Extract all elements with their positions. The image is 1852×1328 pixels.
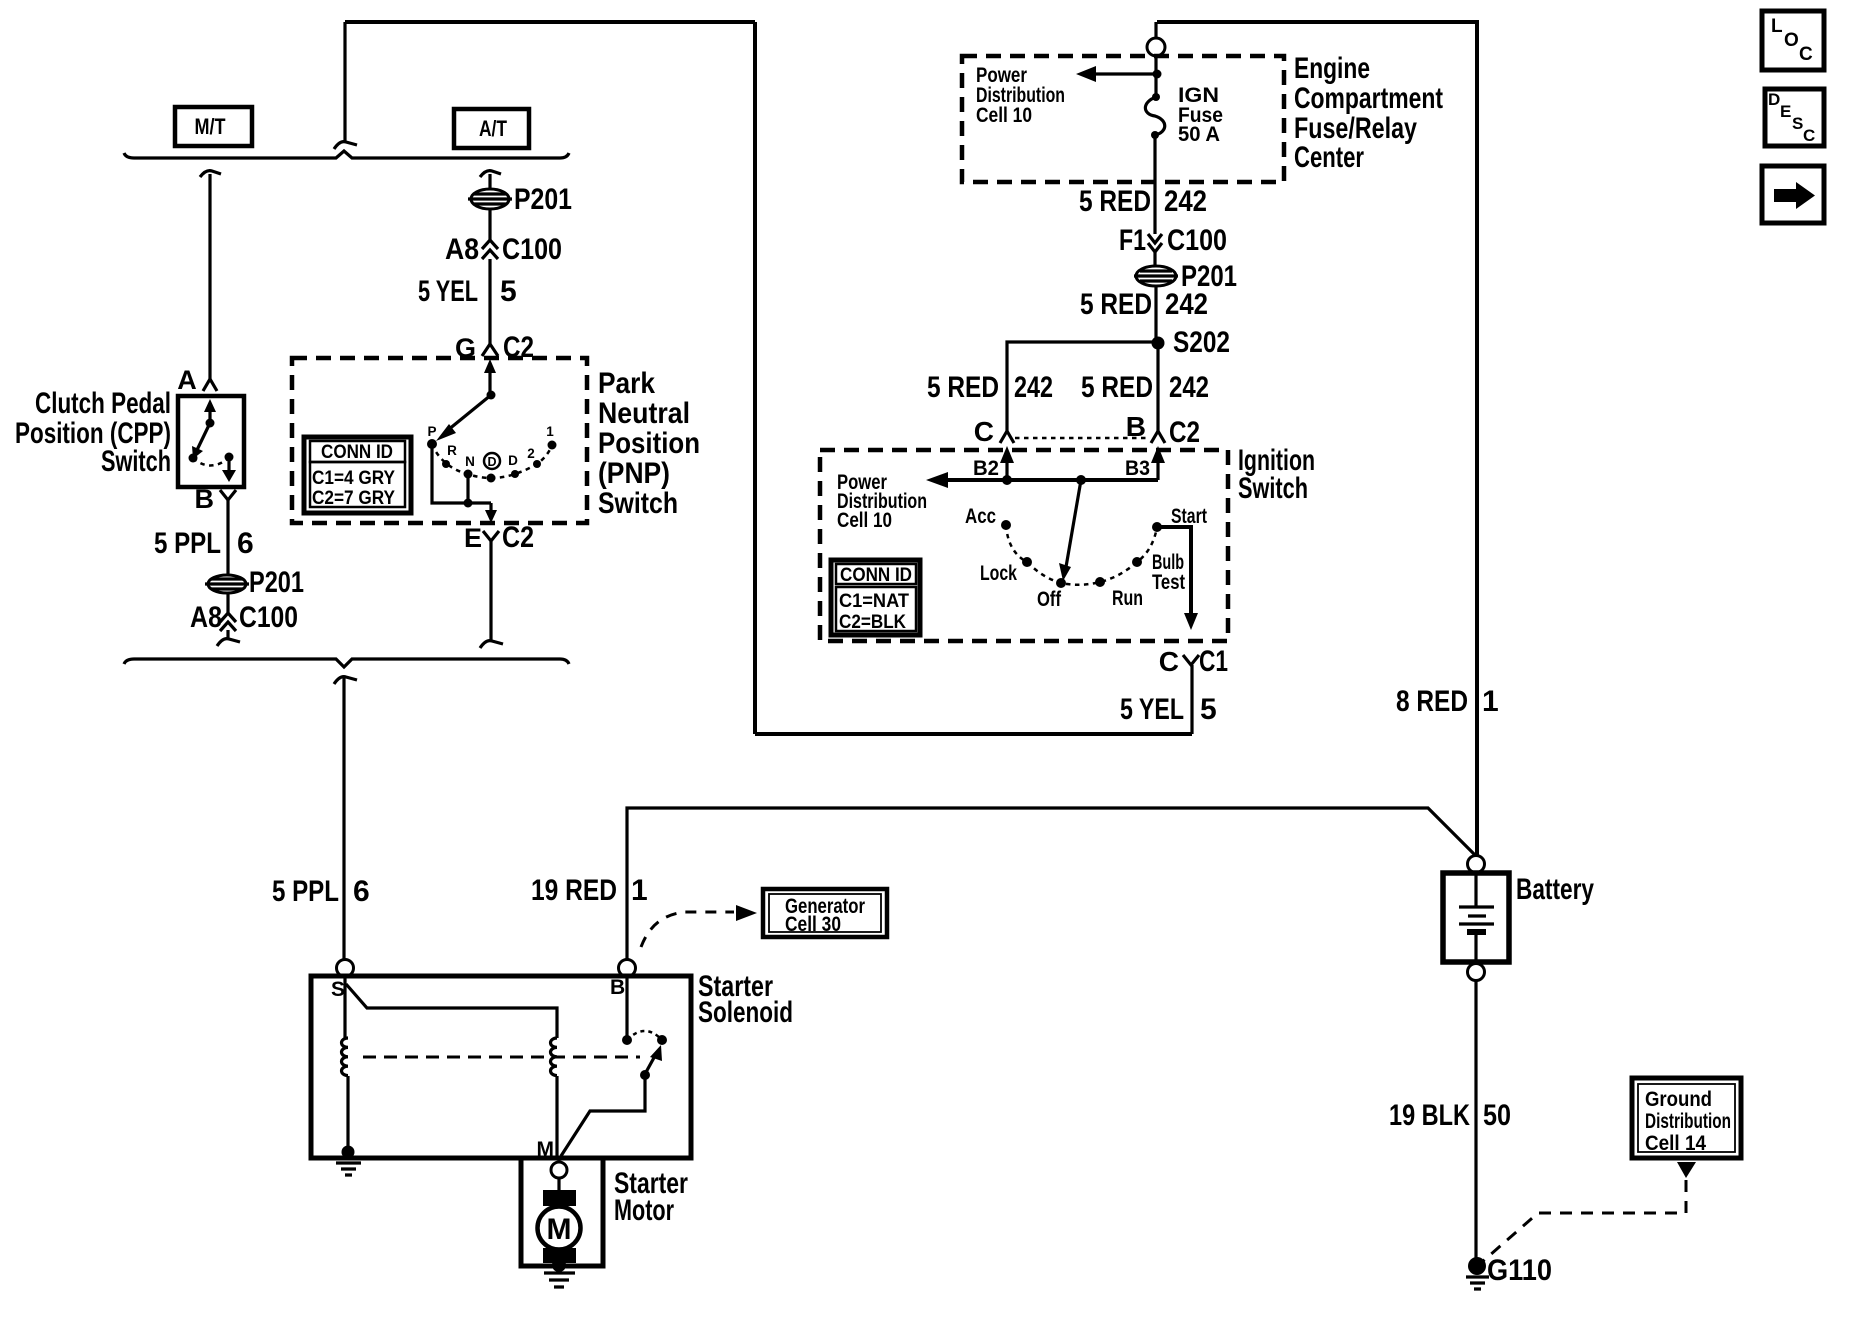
- wire S202 down branch to B: [1156, 343, 1159, 431]
- box M/T: [175, 107, 252, 146]
- svg-text:O: O: [1784, 30, 1799, 51]
- label Engine Compartment Fuse/Relay Center: [1294, 52, 1443, 174]
- svg-text:5 PPL: 5 PPL: [154, 527, 221, 560]
- ground (solenoid internal): [336, 1146, 361, 1176]
- svg-text:Position: Position: [598, 427, 700, 460]
- svg-text:5 RED: 5 RED: [1081, 371, 1153, 404]
- box Starter Solenoid: [311, 976, 691, 1158]
- dashed plunger link: [363, 1056, 640, 1059]
- svg-text:Cell 10: Cell 10: [837, 509, 892, 532]
- svg-text:C: C: [1159, 646, 1179, 677]
- svg-text:242: 242: [1014, 371, 1053, 404]
- svg-text:Neutral: Neutral: [598, 397, 690, 430]
- terminal C C1 chevron: [1159, 645, 1228, 678]
- svg-text:P201: P201: [514, 183, 572, 216]
- PNP dashed position arc: [432, 444, 552, 478]
- svg-text:5 RED: 5 RED: [927, 371, 999, 404]
- bus bracket top (M/T A/T alternatives): [124, 151, 569, 158]
- wire below P201 A/T: [488, 209, 491, 240]
- wire ignition C1 drop: [1190, 665, 1193, 734]
- svg-text:Park: Park: [598, 367, 655, 400]
- svg-text:A/T: A/T: [479, 116, 507, 141]
- wire M/T drop: [200, 171, 221, 379]
- svg-text:242: 242: [1164, 185, 1207, 218]
- svg-text:1: 1: [546, 424, 554, 439]
- svg-text:2: 2: [527, 446, 535, 461]
- PNP position D: [508, 453, 519, 478]
- svg-text:Engine: Engine: [1294, 52, 1370, 85]
- wire Start to C1 exit: [1157, 527, 1198, 630]
- svg-text:Run: Run: [1112, 587, 1143, 610]
- PNP position N: [464, 454, 475, 479]
- wire coil L1 to ground: [346, 1076, 349, 1150]
- terminal E C2 chevron: [464, 521, 534, 554]
- solenoid dashed contact arc: [627, 1031, 662, 1040]
- connector A8 C100 chevrons (A/T): [445, 233, 562, 266]
- svg-text:Ground: Ground: [1645, 1088, 1712, 1111]
- terminal M circle: [551, 1162, 567, 1178]
- svg-text:5 YEL: 5 YEL: [418, 275, 478, 308]
- solenoid moving contact: [640, 1035, 667, 1080]
- label Starter Solenoid: [698, 970, 793, 1029]
- splice S202: [1152, 326, 1231, 359]
- svg-text:C100: C100: [1167, 224, 1227, 257]
- svg-text:242: 242: [1169, 371, 1209, 404]
- ignition feed rail with left arrow: [926, 472, 1158, 488]
- position Bulb Test: [1132, 551, 1185, 594]
- svg-text:Test: Test: [1152, 571, 1185, 594]
- svg-text:Switch: Switch: [101, 445, 171, 478]
- label 5 RED 242 (left branch): [927, 371, 1053, 404]
- svg-text:Lock: Lock: [980, 562, 1017, 585]
- wire lower horizontal to ignition C1: [755, 732, 1192, 736]
- box A/T: [454, 109, 529, 148]
- svg-text:Cell 14: Cell 14: [1645, 1132, 1706, 1155]
- svg-text:C: C: [974, 416, 994, 447]
- label 5 YEL 5 (A/T): [418, 275, 517, 308]
- PNP pivot and lever: [436, 391, 496, 442]
- svg-text:Switch: Switch: [598, 487, 678, 520]
- wire coil L2 to M: [555, 1076, 558, 1160]
- label Ignition Switch: [1238, 444, 1315, 505]
- position Run: [1095, 577, 1143, 610]
- wire 5 YEL segment: [488, 259, 491, 344]
- connector P201 (right): [1134, 260, 1237, 293]
- label 5 RED 242: [1080, 288, 1208, 321]
- motor brush bottom: [543, 1248, 576, 1263]
- svg-text:Start: Start: [1171, 505, 1207, 528]
- label Power Distribution Cell 10 (fuse box): [976, 64, 1065, 127]
- icon box DESC: [1765, 89, 1824, 146]
- svg-text:C1=4 GRY: C1=4 GRY: [312, 468, 395, 489]
- svg-text:5 YEL: 5 YEL: [1120, 693, 1184, 726]
- label 8 RED 1: [1396, 685, 1499, 718]
- svg-text:50: 50: [1483, 1099, 1511, 1132]
- CPP contact arrow up: [204, 399, 216, 423]
- svg-text:M/T: M/T: [195, 114, 226, 139]
- svg-text:M: M: [537, 1138, 555, 1161]
- battery bottom terminal circle: [1468, 964, 1485, 981]
- battery cell symbol: [1459, 873, 1494, 962]
- svg-text:B2: B2: [973, 457, 999, 480]
- coil L1 (pull-in winding): [341, 1038, 348, 1076]
- svg-text:S202: S202: [1173, 326, 1230, 359]
- solenoid contact B side: [622, 977, 632, 1045]
- wire riser to M/T-A/T bus: [334, 22, 357, 149]
- wire contact to M: [561, 1075, 645, 1156]
- svg-text:N: N: [465, 454, 475, 469]
- bus bracket bottom: [124, 659, 569, 667]
- position Off: [1037, 578, 1066, 611]
- terminal A chevron: [203, 379, 217, 391]
- PNP output arrow down: [485, 503, 497, 523]
- svg-text:C100: C100: [502, 233, 562, 266]
- PNP junction dot: [464, 474, 473, 508]
- label 19 RED 1: [531, 874, 648, 907]
- CPP lower contact arrow down: [222, 453, 236, 483]
- PNP input arrow up: [484, 359, 496, 395]
- wire CPP B drop: [226, 500, 229, 577]
- CONN ID table (PNP): [304, 437, 411, 513]
- svg-text:R: R: [447, 443, 457, 458]
- svg-text:P: P: [427, 424, 436, 439]
- svg-text:(PNP): (PNP): [598, 457, 670, 490]
- terminal G C2 chevron: [455, 331, 534, 364]
- wire B riser and top run to battery: [627, 808, 1476, 960]
- leader dashed to Generator: [641, 905, 757, 947]
- wire S to pull-in coil: [343, 977, 346, 1038]
- switch CPP box: [178, 396, 244, 487]
- connector A8 C100 chevrons (left): [190, 601, 298, 634]
- svg-text:Cell 30: Cell 30: [785, 913, 841, 936]
- svg-text:A8: A8: [445, 233, 479, 266]
- label 19 BLK 50: [1389, 1099, 1511, 1132]
- box Engine Compartment Fuse/Relay Center dashed: [962, 56, 1284, 182]
- PNP position 1: [546, 424, 556, 450]
- icon box arrow: [1762, 166, 1824, 223]
- svg-text:6: 6: [353, 875, 370, 908]
- label 5 YEL 5 (ignition output): [1120, 693, 1217, 726]
- svg-text:C2: C2: [1169, 416, 1200, 449]
- svg-text:S: S: [1792, 114, 1803, 133]
- svg-text:8 RED: 8 RED: [1396, 685, 1468, 718]
- svg-text:E: E: [1780, 102, 1791, 121]
- svg-text:5 RED: 5 RED: [1079, 185, 1151, 218]
- wire stub to lower bus: [217, 630, 240, 646]
- wire below P201 left: [226, 593, 229, 613]
- switch PNP dashed box: [292, 358, 587, 523]
- junction dots on rail: [1002, 475, 1086, 485]
- svg-text:C2=7 GRY: C2=7 GRY: [312, 488, 395, 509]
- svg-text:B3: B3: [1125, 457, 1150, 480]
- terminal C chevron: [974, 416, 1014, 447]
- svg-text:C100: C100: [239, 601, 298, 634]
- wire circle to fuse: [1154, 56, 1157, 97]
- connector P201 (A/T): [468, 183, 572, 216]
- label Power Distribution Cell 10 (ignition): [837, 471, 927, 532]
- box Generator Cell 30: [763, 889, 887, 937]
- terminal S circle: [337, 960, 354, 977]
- wire A/T drop: [480, 171, 501, 191]
- position Start: [1152, 505, 1207, 532]
- svg-text:F1: F1: [1119, 224, 1146, 257]
- wire M to motor: [557, 1178, 560, 1192]
- label 5 PPL 6 (CPP branch): [154, 527, 254, 560]
- PNP position 2: [527, 446, 541, 468]
- CPP dashed travel arc: [193, 458, 229, 466]
- wire top-left horizontal run: [345, 20, 755, 24]
- dashed leader to G110: [1482, 1180, 1686, 1262]
- svg-text:50 A: 50 A: [1178, 123, 1220, 146]
- wire E to lower bus: [480, 541, 503, 648]
- svg-text:CONN ID: CONN ID: [321, 442, 393, 463]
- svg-text:S: S: [331, 978, 345, 1001]
- ignition rotor arrow to Off: [1059, 480, 1081, 581]
- svg-text:6: 6: [237, 527, 254, 560]
- svg-text:1: 1: [631, 874, 648, 907]
- PNP position circled D: [484, 453, 500, 483]
- wire S to hold-in coil: [346, 984, 557, 1038]
- svg-text:5: 5: [1200, 693, 1217, 726]
- svg-text:Motor: Motor: [614, 1194, 674, 1227]
- svg-text:M: M: [547, 1213, 572, 1246]
- svg-text:19 BLK: 19 BLK: [1389, 1099, 1470, 1132]
- svg-text:C2: C2: [502, 521, 534, 554]
- label 5 RED 242 (right branch): [1081, 371, 1209, 404]
- pin B2 arrow: [973, 446, 1014, 480]
- battery box: [1443, 873, 1509, 962]
- label Starter Motor: [614, 1167, 688, 1227]
- terminal B chevron: [220, 490, 236, 500]
- switch Ignition dashed box: [820, 450, 1228, 641]
- position Lock: [980, 557, 1032, 585]
- coil L2 (hold-in winding): [550, 1038, 557, 1076]
- wire fuse to F1: [1153, 135, 1156, 234]
- svg-text:Compartment: Compartment: [1294, 82, 1443, 115]
- svg-text:B: B: [195, 484, 215, 514]
- leader triangle from Ground Distribution: [1677, 1162, 1696, 1178]
- dashed connector face line: [1015, 437, 1149, 440]
- terminal B C2 chevron: [1126, 411, 1200, 449]
- battery top terminal circle: [1468, 856, 1485, 873]
- svg-text:Switch: Switch: [1238, 472, 1308, 505]
- wire F1 to P201: [1153, 252, 1156, 267]
- svg-text:D: D: [487, 455, 496, 469]
- svg-text:Clutch Pedal: Clutch Pedal: [35, 387, 171, 420]
- motor brush top: [543, 1190, 576, 1206]
- svg-text:5: 5: [500, 275, 517, 308]
- connector P201 (left): [205, 566, 304, 599]
- motor M circle: [538, 1207, 581, 1250]
- PNP position P dot: [427, 424, 437, 449]
- svg-text:Battery: Battery: [1516, 873, 1594, 906]
- svg-text:19 RED: 19 RED: [531, 874, 617, 907]
- ignition dashed position arc: [1006, 525, 1157, 585]
- CPP movable contact with arrowhead: [189, 419, 215, 463]
- wire top-right run to battery feed: [1157, 22, 1477, 855]
- svg-text:5 PPL: 5 PPL: [272, 875, 339, 908]
- svg-text:Center: Center: [1294, 141, 1364, 174]
- svg-text:C: C: [1799, 44, 1813, 65]
- label 5 RED 242: [1079, 185, 1207, 218]
- fuse IGN 50A: [1145, 84, 1223, 146]
- svg-text:P201: P201: [249, 566, 304, 599]
- wire P201 to S202: [1154, 286, 1157, 343]
- position Acc: [965, 505, 1011, 530]
- svg-text:D: D: [1768, 90, 1780, 109]
- svg-text:A: A: [177, 365, 197, 395]
- svg-text:D: D: [508, 453, 518, 468]
- connector F1 C100 chevrons: [1119, 224, 1227, 257]
- terminal B circle (solenoid): [619, 960, 636, 977]
- svg-text:Solenoid: Solenoid: [698, 996, 793, 1029]
- ground G110: [1466, 1254, 1552, 1289]
- box Starter Motor enclosure: [521, 1158, 603, 1266]
- svg-text:Off: Off: [1037, 588, 1062, 611]
- icon box LOC: [1762, 11, 1824, 70]
- svg-text:C1: C1: [1199, 645, 1228, 678]
- PNP position R: [442, 443, 457, 468]
- PNP wire P to output: [432, 444, 491, 503]
- svg-text:Cell 10: Cell 10: [976, 104, 1032, 127]
- pin B3 arrow: [1125, 446, 1165, 480]
- svg-text:C1=NAT: C1=NAT: [839, 591, 909, 612]
- ground (starter motor): [544, 1258, 575, 1287]
- CONN ID table (ignition): [831, 560, 920, 635]
- wire S202 left branch to C: [1007, 342, 1158, 431]
- svg-text:L: L: [1771, 16, 1783, 37]
- svg-text:C: C: [1803, 126, 1815, 145]
- wire fuse feed stub: [1154, 22, 1157, 38]
- svg-text:Distribution: Distribution: [1645, 1110, 1731, 1133]
- svg-text:C2=BLK: C2=BLK: [839, 612, 906, 633]
- svg-text:5 RED: 5 RED: [1080, 288, 1152, 321]
- wire battery to G110: [1474, 981, 1477, 1258]
- wire bus to starter S: [334, 677, 357, 960]
- svg-text:E: E: [464, 523, 482, 553]
- box Ground Distribution Cell 14: [1632, 1078, 1741, 1158]
- node battery feed splice circle: [1147, 38, 1165, 56]
- label 5 PPL 6 (starter branch): [272, 875, 370, 908]
- svg-text:B: B: [610, 976, 625, 999]
- svg-text:1: 1: [1482, 685, 1499, 718]
- svg-text:242: 242: [1165, 288, 1208, 321]
- label Clutch Pedal Position (CPP) Switch: [15, 387, 171, 478]
- svg-text:Acc: Acc: [965, 505, 996, 528]
- svg-text:G110: G110: [1487, 1254, 1552, 1287]
- wire left loop vertical: [753, 22, 757, 734]
- svg-text:A8: A8: [190, 601, 222, 634]
- arrow to power distribution: [1076, 66, 1162, 82]
- svg-text:CONN ID: CONN ID: [840, 565, 912, 586]
- label Park Neutral Position (PNP) Switch: [598, 367, 700, 520]
